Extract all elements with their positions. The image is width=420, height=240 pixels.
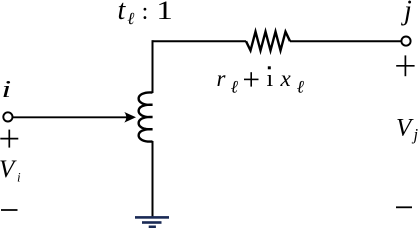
label V_i bbox=[0, 156, 21, 185]
svg-text:V: V bbox=[396, 115, 414, 142]
label - (Vj polarity) bbox=[396, 206, 412, 208]
node j terminal (open circle) bbox=[401, 37, 410, 46]
inductor coil (transformer winding) bbox=[139, 92, 153, 141]
wire: top horizontal right segment bbox=[290, 40, 401, 42]
resistor R (zigzag) bbox=[246, 32, 290, 51]
svg-text:1: 1 bbox=[156, 0, 173, 25]
wire: top horizontal left segment bbox=[153, 40, 247, 42]
svg-text:x: x bbox=[280, 66, 292, 91]
svg-text:j: j bbox=[401, 0, 412, 26]
label - (Vi polarity) bbox=[1, 209, 18, 211]
svg-text:V: V bbox=[0, 156, 17, 183]
label V_j bbox=[396, 115, 419, 145]
arrowhead bbox=[124, 112, 136, 123]
label + (Vj polarity) bbox=[396, 55, 414, 76]
svg-text:ı: ı bbox=[267, 66, 274, 92]
svg-text:t: t bbox=[118, 0, 127, 26]
svg-text:i: i bbox=[2, 76, 12, 102]
label r_l + i x_l (impedance) bbox=[217, 66, 305, 97]
label + (Vi polarity) bbox=[0, 130, 18, 148]
ground bbox=[135, 216, 169, 228]
svg-text:i: i bbox=[17, 170, 21, 185]
wire: vertical from coil to ground bbox=[152, 141, 154, 217]
svg-text:ℓ: ℓ bbox=[127, 9, 134, 28]
wire: left horizontal with current arrow bbox=[13, 116, 130, 118]
wire: vertical from top corner to coil bbox=[152, 40, 154, 93]
svg-text:r: r bbox=[217, 66, 227, 91]
svg-text:j: j bbox=[412, 125, 419, 144]
svg-text::: : bbox=[142, 0, 149, 25]
svg-text:ℓ: ℓ bbox=[231, 77, 239, 97]
node i terminal (open circle) bbox=[3, 112, 12, 121]
svg-text:ℓ: ℓ bbox=[297, 77, 305, 97]
label t_l : 1 (turns ratio) bbox=[118, 0, 173, 28]
